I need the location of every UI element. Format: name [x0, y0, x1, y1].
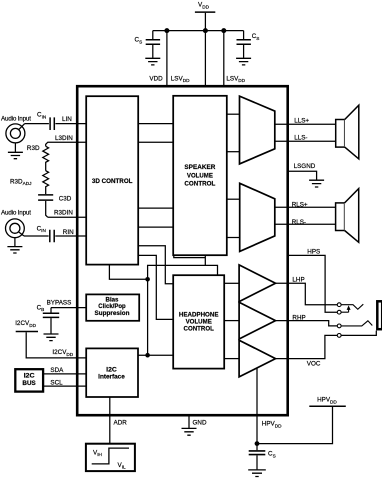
wire I2C interface to headphone volume box	[138, 354, 173, 356]
wire HPS	[288, 255, 338, 312]
capacitor CS bottom	[249, 444, 276, 470]
wire HPVDD internal	[256, 368, 258, 444]
speaker LLS	[336, 105, 359, 159]
ground below CS left	[145, 58, 160, 65]
jack contact circle 3	[337, 324, 341, 328]
amplifier LLS	[240, 96, 275, 164]
svg-text:I2C: I2C	[106, 366, 117, 373]
svg-text:LIN: LIN	[62, 116, 72, 123]
jack switch lever right	[341, 321, 372, 326]
svg-text:C3D: C3D	[59, 195, 72, 202]
ground GND	[182, 428, 197, 435]
capacitor C3D	[38, 195, 72, 217]
svg-text:Interface: Interface	[98, 374, 125, 381]
svg-text:Click/Pop: Click/Pop	[98, 303, 126, 310]
jack contact circle 2	[337, 310, 341, 314]
wire speaker box to RLS amp input 2	[227, 237, 240, 239]
wire VOC	[276, 335, 338, 358]
wire speaker box to LLS amp input 2	[227, 151, 240, 153]
supply VDD symbol	[195, 2, 215, 13]
svg-text:Suppresion: Suppresion	[95, 310, 130, 317]
node junction dot rail-right	[221, 28, 226, 33]
svg-text:BYPASS: BYPASS	[47, 300, 72, 307]
amplifier RHP	[239, 302, 275, 339]
svg-text:VDD: VDD	[149, 75, 163, 82]
svg-text:Audio Input: Audio Input	[1, 210, 31, 217]
wire LLS+ output	[275, 123, 336, 125]
block I2C Interface	[86, 348, 138, 397]
amplifier VOC	[239, 340, 275, 377]
wire SDA	[43, 373, 86, 375]
wire 3D to speaker R1	[138, 207, 173, 209]
svg-text:I2C: I2C	[24, 373, 36, 380]
audio input connector 1	[1, 116, 31, 143]
wire LLS- output	[275, 140, 336, 142]
wire headphone box to VOC amp	[224, 358, 239, 360]
wire VDD pin drop	[166, 31, 168, 86]
svg-text:LSGND: LSGND	[294, 163, 316, 170]
wire L3DIN	[46, 142, 86, 146]
audio input connector 2	[1, 210, 31, 238]
capacitor CIN top	[25, 112, 55, 131]
ground below CS bottom	[248, 470, 266, 477]
wire HPVDD to supply	[257, 407, 333, 444]
svg-text:RIN: RIN	[63, 229, 74, 236]
wire R3DIN	[48, 216, 86, 218]
wire GND stub	[188, 415, 190, 428]
wire LHP	[276, 283, 338, 304]
wire 3D to speaker R2	[138, 226, 173, 228]
wire LSGND	[288, 171, 317, 180]
svg-text:RLS+: RLS+	[292, 201, 308, 208]
wire LSVDD pin drop	[223, 31, 225, 86]
amplifier LHP	[239, 265, 275, 302]
svg-text:L3DIN: L3DIN	[55, 135, 73, 142]
wire SCL	[43, 385, 86, 387]
wire 3D to speaker L1	[138, 123, 173, 125]
svg-text:RHP: RHP	[292, 315, 305, 322]
wire top power rail	[153, 30, 244, 32]
wire 3D right to headphone volume (upper)	[138, 246, 173, 284]
ground LSGND	[309, 180, 324, 187]
svg-text:VOC: VOC	[307, 361, 321, 368]
wire LIN	[55, 123, 86, 125]
svg-text:Audio Input: Audio Input	[1, 116, 31, 123]
wire jack sleeve	[341, 331, 376, 336]
svg-text:SDA: SDA	[50, 367, 64, 374]
wire ADR	[109, 397, 111, 444]
svg-text:VOLUME: VOLUME	[187, 173, 214, 180]
ground connector 2	[7, 238, 22, 254]
svg-text:BUS: BUS	[22, 380, 35, 387]
wire headphone box to RHP amp	[224, 320, 239, 322]
ground connector 1	[8, 143, 23, 159]
wire RHP	[276, 321, 338, 326]
wire speaker box to LLS amp input 1	[227, 113, 240, 115]
resistor R3D	[27, 145, 49, 171]
svg-text:ADR: ADR	[114, 420, 128, 427]
wire RIN	[55, 235, 86, 237]
svg-text:GND: GND	[193, 420, 207, 427]
svg-text:LLS+: LLS+	[294, 118, 309, 125]
ground below CS right	[236, 58, 251, 65]
block HEADPHONE VOLUME CONTROL	[173, 275, 224, 368]
wire headphone box to LHP amp	[224, 282, 239, 284]
svg-text:VOLUME: VOLUME	[186, 318, 213, 325]
capacitor CIN bottom	[24, 225, 54, 242]
block I2C BUS	[15, 369, 43, 391]
jack switch lever left	[341, 304, 363, 309]
wire 3D control bottom to junction	[109, 265, 147, 280]
jack contact circle 4	[337, 334, 341, 338]
node junction dot B	[145, 353, 150, 358]
wire 3D to speaker L2	[138, 141, 173, 143]
block SPEAKER VOLUME CONTROL	[173, 96, 227, 255]
svg-text:R3D: R3D	[27, 145, 40, 152]
wire junction A up to speaker/headphone feed	[148, 265, 218, 279]
wire I2CVDD	[26, 332, 86, 358]
block Bias Click/Pop Suppresion	[86, 294, 139, 320]
capacitor CB	[37, 304, 60, 333]
svg-text:CONTROL: CONTROL	[184, 325, 214, 332]
wire RLS- output	[275, 223, 336, 225]
svg-text:HPS: HPS	[307, 249, 320, 256]
svg-text:3D CONTROL: 3D CONTROL	[92, 178, 133, 185]
wire VDD stem down to chip	[204, 13, 206, 86]
jack switch arrow	[341, 305, 350, 312]
chip outline	[77, 86, 288, 415]
capacitor CS left	[135, 31, 161, 58]
wire junction A down to junction B	[147, 279, 149, 355]
supply HPVDD symbol	[309, 397, 346, 407]
node junction dot rail-center	[203, 28, 208, 33]
jack contact circle 1	[337, 303, 341, 307]
block 3D CONTROL	[86, 96, 138, 264]
amplifier RLS	[240, 183, 275, 251]
capacitor CS right	[237, 31, 260, 58]
ground below CB	[44, 334, 59, 341]
wire BYPASS	[51, 307, 86, 309]
svg-text:SCL: SCL	[50, 379, 63, 386]
node junction dot A	[145, 277, 150, 282]
svg-text:LHP: LHP	[292, 276, 304, 283]
wire 3D right to headphone volume (lower)	[138, 255, 173, 319]
svg-text:LLS-: LLS-	[294, 135, 307, 142]
block VIH VIL	[86, 444, 135, 471]
node junction dot rail-left	[164, 28, 169, 33]
svg-text:SPEAKER: SPEAKER	[184, 164, 215, 171]
speaker RLS	[336, 189, 359, 243]
svg-text:RLS-: RLS-	[292, 219, 306, 226]
wire speaker box to RLS amp input 1	[227, 198, 240, 200]
supply I2CVDD symbol	[15, 320, 38, 331]
wire speaker volume box bottom to headphone feed	[174, 255, 206, 265]
resistor R3D_ADJ	[10, 171, 49, 194]
node junction dot HPVDD	[255, 441, 260, 446]
svg-text:CONTROL: CONTROL	[184, 181, 215, 188]
svg-text:R3DIN: R3DIN	[54, 210, 73, 217]
wire RLS+ output	[275, 206, 336, 208]
jack plug body	[377, 301, 382, 329]
